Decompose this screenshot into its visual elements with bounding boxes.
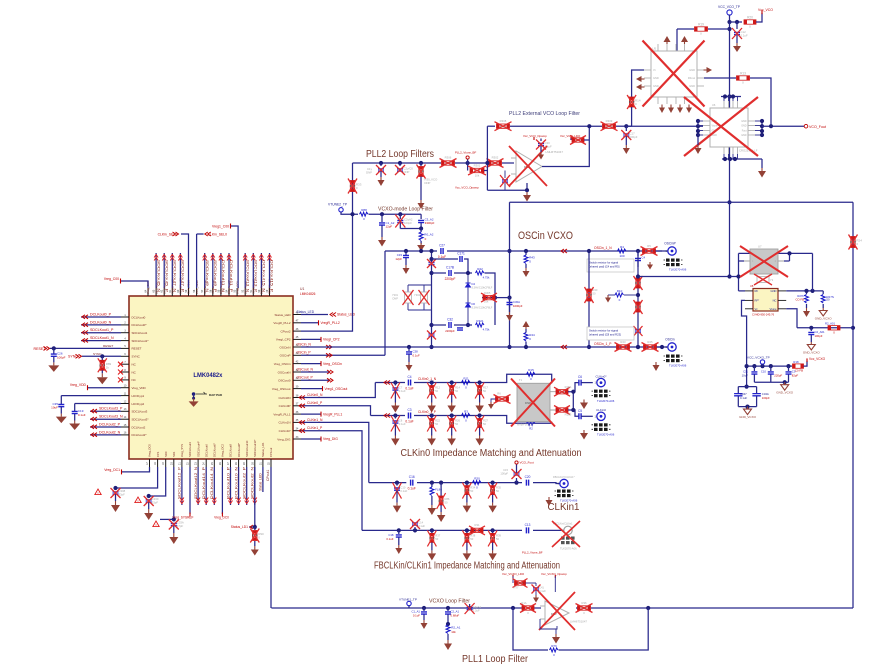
svg-text:4.75k: 4.75k: [483, 328, 490, 332]
svg-text:RESET: RESET: [103, 344, 113, 348]
svg-text:C15: C15: [503, 468, 508, 472]
svg-text:GND: GND: [653, 76, 659, 80]
svg-text:CLKin0_1_N: CLKin0_1_N: [418, 377, 437, 381]
svg-text:12pF: 12pF: [386, 225, 393, 229]
top wire / net label DCLKout11_N: [220, 253, 222, 288]
DNP capacitor C15 to VCO_Fout above: [514, 481, 518, 485]
svg-text:C10: C10: [400, 486, 405, 490]
DNP resistor R14 on Vt wire: [629, 97, 633, 107]
svg-text:C171: C171: [457, 252, 465, 256]
wire bus into U6 left pins: [626, 125, 703, 127]
left pin 6 SYNC: [121, 355, 129, 357]
svg-text:PLL1 Loop Filter: PLL1 Loop Filter: [462, 654, 529, 665]
wire to op-amp supply: [554, 576, 556, 592]
svg-text:50: 50: [435, 537, 438, 541]
resistor R27L with CO FB: [806, 291, 808, 294]
svg-text:Vreg1_C00: Vreg1_C00: [212, 224, 229, 228]
svg-text:3300pF: 3300pF: [425, 221, 435, 225]
wire Vreg1_OSCout label: [301, 388, 322, 390]
svg-text:100pF: 100pF: [815, 334, 823, 338]
DNP C10 to ground: [395, 481, 399, 485]
ground below C4: [649, 262, 651, 265]
top wire / net label DCLKout15_P: [269, 253, 271, 288]
svg-text:C5: C5: [578, 409, 582, 413]
left vertical wire x=509: [509, 202, 511, 347]
capacitor C2_A1 and resistor R2_A1 to ground: [446, 606, 450, 610]
resistor R18 and Vcc_VCXO label: [790, 365, 792, 367]
right pin 16 Vreg_DIG: [293, 438, 301, 440]
top pin 61: [171, 288, 173, 296]
svg-text:R14: R14: [455, 386, 460, 390]
wire / net label SDCLKout1_N: [81, 340, 121, 342]
SMA connector OSCinP: [656, 250, 668, 252]
svg-text:GND: GND: [689, 84, 695, 88]
svg-text:50: 50: [826, 298, 830, 302]
svg-text:R16A: R16A: [565, 385, 572, 389]
svg-text:DCLKout6: DCLKout6: [204, 444, 208, 457]
CLKin0 row1 wire: [375, 382, 405, 384]
svg-text:SD1: SD1: [172, 451, 176, 457]
capacitor C38 to ground: [407, 345, 411, 349]
svg-text:SDCLKout3: SDCLKout3: [132, 410, 148, 414]
DNP C7 to ground: [393, 380, 397, 384]
svg-text:R31: R31: [475, 523, 480, 527]
right arrow at U5 GND pin: [707, 67, 713, 73]
ground below R35: [492, 503, 494, 506]
resistor R15 over balun: [527, 372, 536, 376]
svg-text:SDCLKout5_N: SDCLKout5_N: [156, 260, 160, 293]
svg-text:VregI_CP2: VregI_CP2: [276, 338, 291, 342]
top wire / net label SDCLKout5_N: [155, 253, 157, 288]
svg-text:CVHD-950-245.76: CVHD-950-245.76: [752, 313, 775, 317]
right pin 6 OSCinP: [293, 354, 301, 356]
svg-text:SDCLKout1: SDCLKout1: [132, 331, 148, 335]
svg-text:OSCout0: OSCout0: [278, 379, 291, 383]
svg-text:SDCLKout3_N: SDCLKout3_N: [99, 415, 123, 419]
ground below C19: [74, 421, 76, 424]
ground below R26: [451, 436, 453, 439]
top pin 52: [244, 288, 246, 296]
svg-text:SYNC: SYNC: [132, 355, 141, 359]
svg-text:Y301: Y301: [392, 293, 399, 297]
svg-text:0.1uF: 0.1uF: [386, 537, 393, 541]
top wire / net label SDCLKout13_P: [252, 253, 254, 288]
svg-text:50: 50: [455, 389, 458, 393]
ground below C1_A1: [423, 620, 425, 623]
DNP R26 to ground: [450, 413, 454, 417]
ground below R37: [431, 550, 433, 553]
IC U1 LMK0482x body: [129, 296, 293, 459]
diode D6 level shifter: [466, 303, 471, 307]
DNP resistor R33 on CPout2 riser: [350, 181, 354, 192]
DNP R37 to ground: [430, 528, 434, 532]
svg-text:OSCoutN: OSCoutN: [278, 370, 291, 374]
vertical wire OSCin_1_N to OSCin_1_P with DNP resistor: [588, 251, 590, 347]
svg-text:VCC_VCXO_TP: VCC_VCXO_TP: [747, 356, 770, 360]
wire joining C2yA2 and C3_A2: [400, 228, 421, 230]
svg-text:50: 50: [496, 537, 499, 541]
svg-text:Vcc_VCO_Opamp: Vcc_VCO_Opamp: [455, 186, 479, 190]
U6 top pin bus to VCC_VCO: [721, 96, 741, 98]
ground below R17: [479, 403, 481, 406]
DNP resistor R23: [617, 345, 630, 349]
svg-text:4.75k: 4.75k: [483, 276, 490, 280]
svg-text:C6: C6: [578, 375, 582, 379]
svg-text:Vreg1_OSCout: Vreg1_OSCout: [325, 387, 348, 391]
SMA connector OSCin: [657, 346, 668, 348]
DNP series resistor R31: [471, 528, 483, 532]
svg-text:100pF: 100pF: [57, 356, 66, 360]
top wire / net label SDCLKout7_P: [179, 253, 181, 288]
svg-text:DCLKout0: DCLKout0: [132, 315, 146, 319]
svg-text:50: 50: [435, 389, 438, 393]
node on SYNC / DNP resistor: [100, 354, 104, 358]
svg-text:TLK2070-A06: TLK2070-A06: [669, 364, 687, 368]
svg-text:Vcc_VCO_Opamp: Vcc_VCO_Opamp: [523, 134, 547, 138]
svg-text:R4: R4: [620, 245, 624, 249]
wire VregR_PLL2 label: [301, 322, 318, 324]
wire RESET with net label: [50, 347, 121, 349]
svg-text:C7: C7: [399, 386, 403, 390]
capacitor C1_A2 to ground: [380, 212, 384, 216]
power arrow and resistor feeding OSCin_1_P: [523, 321, 530, 327]
series resistor R11: [462, 381, 471, 385]
svg-text:CLKin1_N: CLKin1_N: [307, 418, 323, 422]
svg-text:R86: R86: [445, 497, 450, 501]
top pin 50: [260, 288, 262, 296]
svg-text:R34: R34: [470, 486, 475, 490]
wire from U7 top bus down to rail: [812, 253, 814, 291]
no-connect marker pin 9: [118, 377, 123, 382]
top pin 55: [220, 288, 222, 296]
svg-text:Vreg_C00: Vreg_C00: [104, 277, 119, 281]
svg-text:Vreg_OSCin: Vreg_OSCin: [323, 362, 342, 366]
upper filter bus wire: [487, 125, 495, 127]
series capacitor C4 row1: [408, 380, 410, 386]
main vertical wire from VCC_VCO_TP down to OSCin section: [729, 22, 731, 202]
DNP balun T1 (crossed out): [517, 383, 550, 421]
top wire / net label SDCLKout5_P: [163, 253, 165, 288]
svg-text:VregI_CP2: VregI_CP2: [323, 338, 340, 342]
capacitor C30 on lower branch: [457, 328, 463, 330]
ground below R2_A1: [447, 640, 449, 644]
svg-text:50: 50: [496, 489, 499, 493]
svg-text:VCO_Fout: VCO_Fout: [809, 125, 826, 129]
DNP crystal Y302 (crossed out): [421, 292, 428, 303]
svg-text:50: 50: [445, 501, 448, 505]
wire CLKin_SEL0 to top pin 7: [196, 234, 198, 288]
svg-text:FBCLKin*/CLKin1*: FBCLKin*/CLKin1*: [553, 475, 575, 479]
svg-text:OSCin: OSCin: [665, 338, 675, 342]
wire with resistor R19 feeding VCO supply pin: [677, 28, 694, 30]
top pin 53: [236, 288, 238, 296]
svg-text:MABA-007159: MABA-007159: [517, 424, 534, 427]
DNP capacitor upper on ladder: [429, 262, 435, 264]
wire CLKin1_P to FBCLKin network: [301, 431, 362, 531]
svg-text:VCXO-mode Loop Filter: VCXO-mode Loop Filter: [378, 207, 433, 213]
ground below R27: [479, 436, 481, 439]
svg-text:47pF: 47pF: [177, 524, 184, 528]
bottom pin 27: [230, 459, 232, 467]
left pin 13 SDCLKout3: [121, 410, 129, 412]
svg-text:SDCLKout1_P: SDCLKout1_P: [90, 328, 114, 332]
svg-text:(shared pad) [C4 and R5]: (shared pad) [C4 and R5]: [589, 265, 620, 269]
svg-text:10k: 10k: [484, 300, 489, 304]
ground below C35: [60, 414, 62, 417]
svg-text:100: 100: [619, 254, 624, 258]
svg-text:0.1uF: 0.1uF: [740, 396, 747, 400]
wire Status_LED with net label: [301, 314, 328, 316]
svg-text:82pF: 82pF: [792, 373, 799, 377]
bottom pin 31 net label Status_LED rotated: [262, 467, 264, 492]
wire RF* pin down to VCC_VCXO bus: [742, 300, 747, 386]
series capacitor C3 row2: [408, 413, 410, 419]
svg-text:Vt: Vt: [653, 68, 656, 72]
svg-text:Fout: Fout: [742, 130, 747, 133]
op-amp output wire up to filter bus: [542, 126, 589, 166]
svg-text:0.1uF: 0.1uF: [413, 613, 420, 617]
svg-text:0.1uF: 0.1uF: [78, 413, 86, 417]
svg-text:C3: C3: [407, 408, 411, 412]
svg-text:CLKin0_N: CLKin0_N: [307, 393, 323, 397]
svg-text:SDCLKout1_N: SDCLKout1_N: [90, 336, 114, 340]
capacitor C11 bypass: [753, 366, 755, 371]
svg-text:OSCinP: OSCinP: [280, 354, 291, 358]
svg-text:R27: R27: [483, 419, 488, 423]
bottom wire / net label DCLKout14_P: [205, 467, 207, 505]
note box switch resistor lower: [587, 327, 634, 340]
resistor R88: [360, 212, 369, 216]
capacitor C3_A2: [420, 214, 422, 219]
bottom pin 30: [254, 459, 256, 467]
middle vertical ladder x=638 with DNP parts: [637, 251, 639, 347]
svg-text:10k: 10k: [451, 630, 456, 634]
svg-text:CLKin_SEL0: CLKin_SEL0: [208, 232, 228, 236]
svg-text:Vcc_VCO: Vcc_VCO: [758, 8, 773, 12]
open ground GND_VCXO below R27S: [822, 308, 824, 311]
svg-text:Vreg_VDD: Vreg_VDD: [70, 383, 87, 387]
ground below PA3: [525, 268, 527, 271]
svg-text:SDCLKout13_P: SDCLKout13_P: [254, 260, 258, 293]
power arrows above U5: [664, 36, 671, 42]
svg-text:0.1uF: 0.1uF: [400, 489, 407, 493]
svg-text:R23: R23: [620, 340, 626, 344]
VCC_VCXO_TP bus wire: [747, 365, 791, 367]
wire Vreg_C00 to top pin 1: [120, 281, 148, 288]
diode D4 level shifter: [467, 273, 469, 325]
right pin 12 CLKin0P: [293, 405, 301, 407]
net label OSCin_1_P: [561, 345, 567, 349]
svg-text:VCO_Fout: VCO_Fout: [520, 461, 534, 465]
series capacitor C20: [526, 480, 528, 486]
warning marker near C308: [95, 489, 101, 495]
svg-text:R305: R305: [484, 291, 491, 295]
svg-text:SDCLKout10*: SDCLKout10*: [253, 439, 257, 457]
bottom wire / net label DCLKout10_N: [238, 467, 240, 505]
svg-text:Vtune: Vtune: [712, 125, 719, 128]
svg-text:OSCout_P: OSCout_P: [297, 376, 314, 380]
warning marker near C330: [135, 497, 141, 503]
wire to C6 and SMA CLKin0*: [573, 383, 579, 392]
svg-text:R17: R17: [483, 386, 488, 390]
no-connect marker pin 8: [118, 370, 123, 375]
open ground GND_VCXO below rail: [784, 382, 786, 385]
svg-text:LMH6T51047: LMH6T51047: [570, 620, 587, 624]
svg-text:SDCLKout1*: SDCLKout1*: [132, 339, 150, 343]
open ground GND_VCXO below C2_A01: [810, 342, 812, 345]
svg-text:50: 50: [593, 292, 596, 296]
svg-text:DAP PAD: DAP PAD: [209, 393, 223, 397]
series capacitor C27: [441, 248, 443, 254]
svg-text:R30: R30: [474, 476, 480, 480]
svg-text:GND: GND: [741, 120, 747, 123]
svg-text:Vreg_DC1: Vreg_DC1: [104, 468, 120, 472]
bottom pin 31: [262, 459, 264, 467]
DNP resistor R16B balun output lower: [556, 408, 568, 412]
wire LDObyp1 / capacitor C35: [61, 395, 121, 397]
left pin 14 SDCLKout3*: [121, 418, 129, 420]
left pin 3 SDCLKout1: [121, 332, 129, 334]
svg-text:DCLKout2_N: DCLKout2_N: [99, 430, 121, 434]
ground arrows below U5: [659, 108, 665, 114]
capacitor C30A to ground: [509, 298, 511, 301]
top wire / net label SDCLKout9_P: [212, 253, 214, 288]
top pin 60: [179, 288, 181, 296]
svg-text:VCXO Loop Filter: VCXO Loop Filter: [429, 599, 470, 605]
bottom wire / net label SDCLKout12_N: [197, 467, 199, 505]
svg-text:OSCinP: OSCinP: [664, 242, 676, 246]
svg-text:SD0: SD0: [164, 451, 168, 457]
wire VCXO-mode filter chain: [369, 213, 422, 215]
DNP R27 to ground: [478, 413, 482, 417]
DNP series resistor R1_A1: [522, 606, 534, 610]
svg-text:R306: R306: [445, 156, 452, 160]
svg-text:U1: U1: [300, 287, 304, 291]
svg-text:GND_VCXO: GND_VCXO: [739, 415, 757, 419]
top wire / net label SDCLKout7_N: [171, 253, 173, 288]
svg-text:RF*: RF*: [755, 299, 760, 303]
left pin 15 DCLKout2: [121, 426, 129, 428]
svg-text:Y2: Y2: [770, 278, 774, 282]
svg-text:TLK2070-A06: TLK2070-A06: [560, 547, 577, 551]
svg-text:2200pF: 2200pF: [445, 277, 456, 281]
ground below C17: [625, 145, 627, 148]
svg-text:OSCin_N: OSCin_N: [297, 342, 312, 346]
svg-text:R0_A2: R0_A2: [424, 233, 434, 237]
svg-text:(shared pad) [C8 and R23]: (shared pad) [C8 and R23]: [589, 333, 621, 337]
vertical from OSCin_P pin to bus: [384, 251, 386, 355]
svg-text:R25: R25: [647, 340, 653, 344]
svg-text:Switch resistor for signal: Switch resistor for signal: [589, 329, 619, 333]
series capacitor C13: [526, 527, 528, 533]
svg-text:LDObyp1: LDObyp1: [132, 394, 145, 398]
bottom pin 32: [270, 459, 272, 467]
svg-text:GND: GND: [689, 68, 695, 72]
ground below CLKin0* SMA: [583, 400, 585, 403]
svg-text:LDObyp2: LDObyp2: [132, 402, 145, 406]
svg-text:D6: D6: [472, 302, 476, 306]
svg-text:DCLKout8*: DCLKout8*: [237, 442, 241, 457]
right pin 14 CLKin1N: [293, 421, 301, 423]
svg-text:R11: R11: [463, 376, 469, 380]
vertical wire at VCXO input: [738, 253, 740, 291]
capacitor C17B branch with resistor R42: [432, 272, 447, 274]
svg-text:RF: RF: [755, 289, 759, 293]
svg-text:CLKin0 Impedance Matching and: CLKin0 Impedance Matching and Attenuatio…: [401, 448, 582, 459]
svg-text:DCLKout2*: DCLKout2*: [132, 433, 148, 437]
svg-text:100pF: 100pF: [762, 396, 770, 400]
wire / net label DCLKout0_P: [81, 316, 121, 318]
svg-text:CLKin1P: CLKin1P: [279, 429, 291, 433]
svg-text:C32: C32: [447, 318, 453, 322]
wire over U7 top: [739, 252, 813, 254]
wire / net label SDCLKout3_P: [90, 410, 121, 412]
DNP termination resistor R6 between rows: [496, 397, 509, 401]
left pin 10 Vreg_VDD: [121, 387, 129, 389]
svg-text:R6: R6: [497, 392, 501, 396]
series capacitor C16: [411, 480, 413, 486]
svg-text:R42: R42: [477, 267, 483, 271]
ground below C38: [408, 362, 410, 365]
svg-text:0.1uF: 0.1uF: [405, 420, 413, 424]
DNP R38 to ground: [465, 528, 469, 532]
capacitor C9 bypass: [788, 366, 790, 371]
wire / net label DCLKout0_N: [81, 324, 121, 326]
wire / net label SDCLKout3_N: [90, 418, 121, 420]
ground below OSCin SMA: [655, 362, 657, 365]
svg-text:SDCLKout12_P: SDCLKout12_P: [178, 466, 182, 499]
left pin 4 SDCLKout1*: [121, 340, 129, 342]
svg-text:0.68uF: 0.68uF: [451, 613, 460, 617]
left pin 12 LDObyp2: [121, 403, 129, 405]
right pin 8 OSCoutN: [293, 371, 301, 373]
wire LDObyp2 / capacitor C19: [75, 403, 121, 405]
svg-text:SDCLKout7_N: SDCLKout7_N: [173, 260, 177, 293]
filter FL86 to ground: [430, 481, 434, 485]
bottom pin 24: [205, 459, 207, 467]
top wire / net label DCLKout15_N: [260, 253, 262, 288]
svg-text:CP1: CP1: [156, 451, 160, 457]
DNP resistor R77: [512, 576, 514, 583]
svg-text:R39: R39: [496, 533, 501, 537]
right pin 9 OSCout0: [293, 379, 301, 381]
bottom pin 22: [189, 459, 191, 467]
svg-text:C41: C41: [539, 586, 544, 590]
bottom pin 23: [197, 459, 199, 467]
resistor R2_A01 series: [828, 326, 840, 330]
DNP resistor R302: [489, 161, 502, 165]
wire CLKin1_N to CLKin1 network: [301, 422, 369, 482]
ground below FL86: [431, 505, 433, 508]
DNP resistor R306 on bus: [440, 162, 441, 164]
svg-text:Vreg_SYSREF: Vreg_SYSREF: [172, 516, 193, 520]
svg-text:Vreg_DC2: Vreg_DC2: [221, 444, 225, 457]
ground below C10: [396, 503, 398, 506]
wire Vreg_OSCin label: [301, 363, 321, 365]
DNP capacitor C3pA1: [468, 606, 472, 610]
feedback row wire to right vertical: [797, 327, 853, 329]
bottom pin 18 wire / DNP capacitor C308: [116, 467, 158, 488]
svg-text:50: 50: [483, 389, 486, 393]
ground below C8: [394, 436, 396, 439]
ground below C7: [394, 403, 396, 406]
svg-text:VCC_VCO_TP: VCC_VCO_TP: [718, 5, 741, 9]
svg-text:C0 FB: C0 FB: [795, 369, 803, 373]
wire Vreg_DIG label: [301, 438, 321, 440]
wire / net label SDCLKout1_P: [81, 332, 121, 334]
bottom wire / net label SDCLKout2_N: [254, 467, 256, 505]
svg-text:R309: R309: [606, 119, 613, 123]
